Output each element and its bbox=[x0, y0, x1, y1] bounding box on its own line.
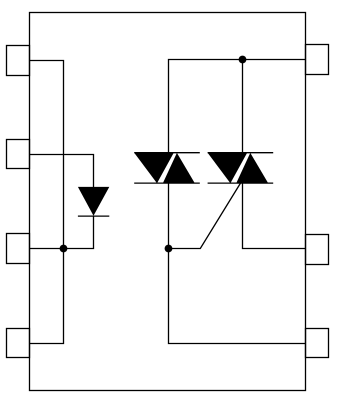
junction node B (top rail) bbox=[239, 56, 247, 64]
pin 6 (middle-right) bbox=[306, 235, 329, 265]
wire node C to pin5 bbox=[169, 249, 306, 344]
wire triac gate to node C bbox=[169, 183, 241, 248]
pin 4 (bottom-left) bbox=[7, 329, 30, 358]
diode D1 cathode bar bbox=[78, 215, 109, 217]
junction node C (gate net) bbox=[165, 245, 173, 253]
pin 1 (top-left) bbox=[7, 46, 30, 76]
wire pin2 to diode D1 anode bbox=[30, 155, 94, 188]
wire diac top lead to top rail and pin7 bbox=[169, 60, 306, 153]
wire triac main terminal 2 to pin6 bbox=[243, 183, 306, 248]
pin 7 (top-right) bbox=[306, 45, 329, 75]
wire pin1 to node A bbox=[30, 61, 64, 249]
diac (photo-triac output stage) bbox=[134, 153, 200, 184]
wire node A to pin4 bbox=[30, 249, 64, 344]
wire diac bottom lead to node C bbox=[168, 183, 170, 248]
wire pin3 to node A to D1 cathode bbox=[30, 216, 94, 248]
junction node A (cathode net) bbox=[60, 245, 68, 253]
triac Q1 bbox=[208, 153, 274, 184]
pin 2 (left) bbox=[7, 140, 30, 169]
wire node B to triac top bbox=[242, 60, 244, 153]
package outline U1 bbox=[30, 13, 306, 391]
pin 3 (left) bbox=[7, 234, 30, 264]
pin 5 (bottom-right) bbox=[306, 329, 329, 358]
diode D1 (LED) triangle bbox=[78, 187, 109, 216]
